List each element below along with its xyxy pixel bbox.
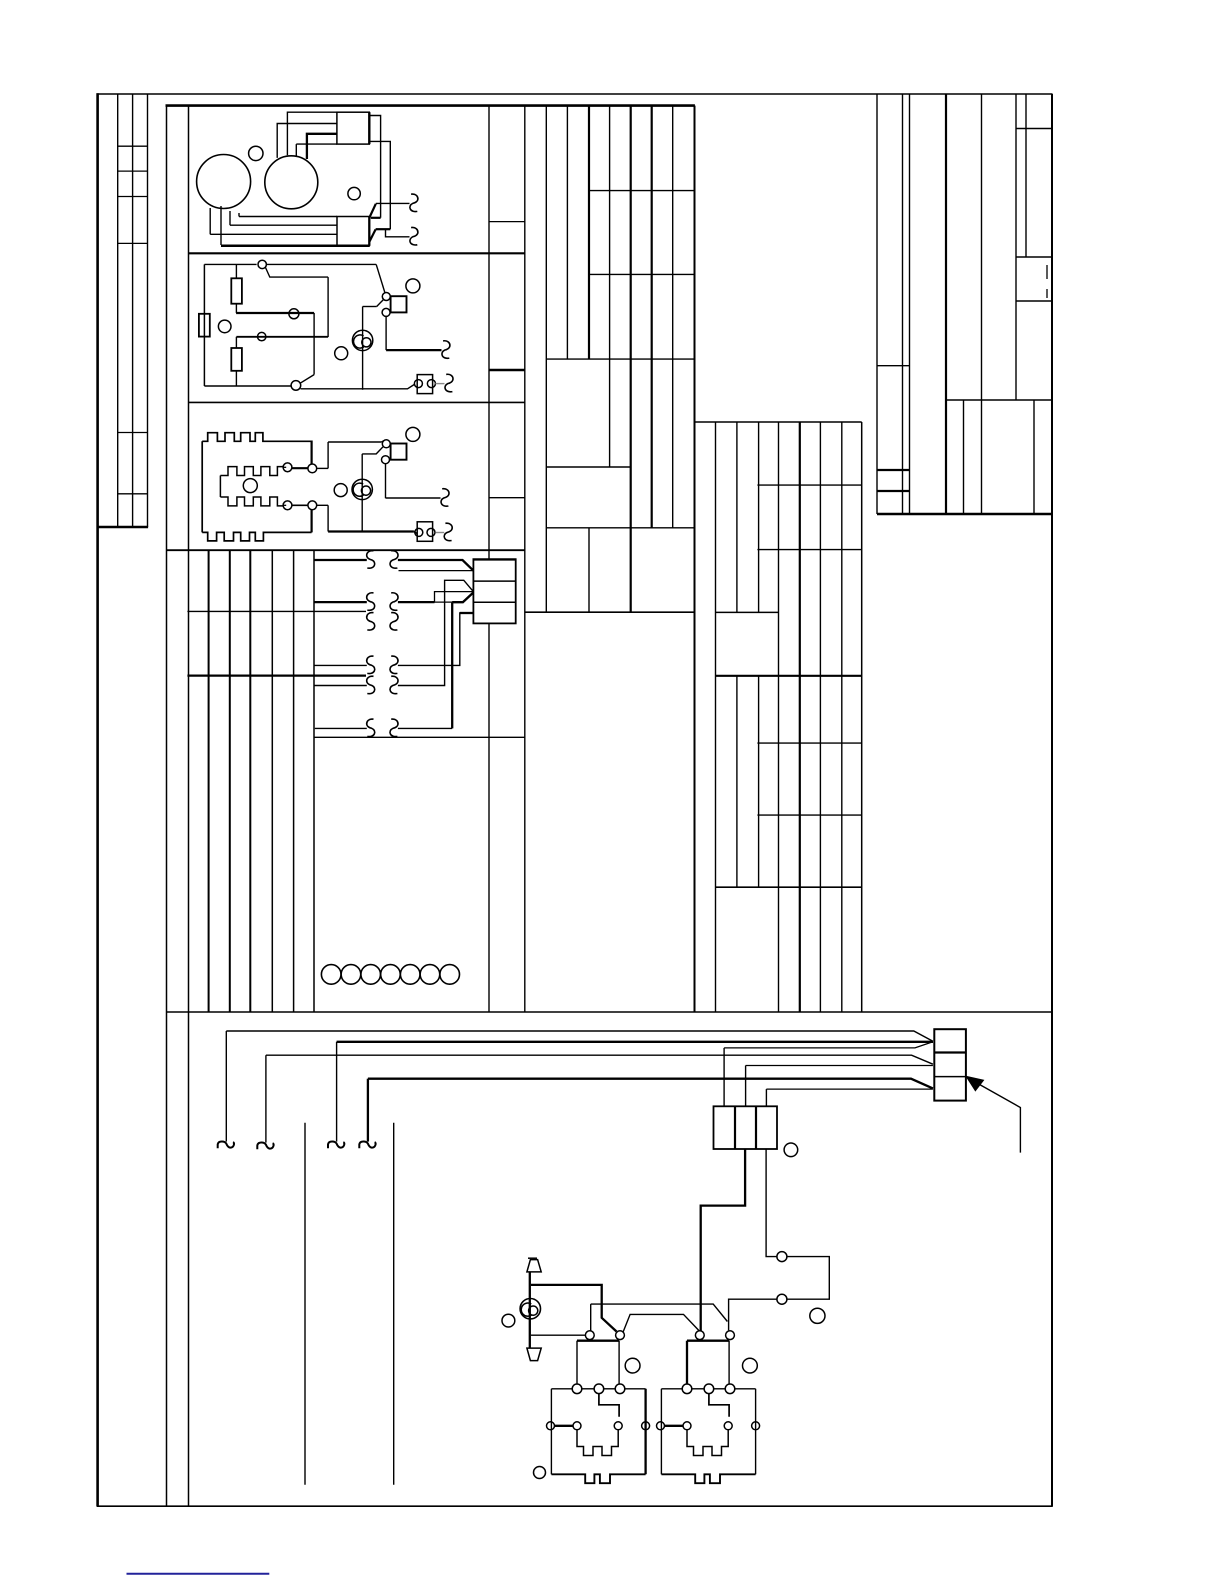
column x567 [566,106,568,360]
table column line 2 [132,94,134,527]
relay inner contact circle 2 [573,1422,581,1430]
relay upper box [687,1340,729,1342]
group row y527 [546,527,694,529]
sec2 relay drop [385,317,387,351]
bottom section top line [166,1011,1052,1013]
inner box top line [314,736,525,738]
bus column x250 [249,550,251,1012]
sec2 bus drop [313,313,315,375]
terminal circle row [321,965,341,985]
sec3 relay drop [385,464,387,498]
bus line x489 lower [488,623,490,1012]
bus column x272 [271,550,273,1012]
sec3 hook B [444,523,452,541]
pilot box outline [787,1257,829,1300]
column x1016 [1015,94,1017,400]
wire W1 thick [314,559,367,561]
stator lead lower [283,504,286,506]
crossover wire 2 [623,1314,699,1331]
relay box sec2 [391,296,407,312]
relay contact circle top [382,293,390,301]
right tick y470 [877,469,910,471]
bus line x525 [524,106,526,1012]
section divider 2-3 [189,401,525,403]
engine thick step lower [376,228,391,230]
dash mark 1 [1046,265,1048,279]
R1 wire thick to cell1 [398,560,473,570]
column x877 [876,94,878,514]
column x630 [630,106,632,613]
bundle wire A drop [225,1031,227,1142]
page bottom border [97,1505,1053,1507]
pointer arrow annotation [967,1077,983,1090]
plain circle sec2 mid [335,347,348,360]
connector top thick [473,558,517,560]
winding pair row6 right [390,719,398,737]
connector divider 1 [473,580,515,582]
sec2 hook A [442,341,450,359]
engine small port circle 2 [348,187,360,199]
engine left lead 4 [238,213,240,217]
column x909 [909,94,911,514]
bundle hook C [257,1142,273,1149]
bundle wire C [266,1055,933,1064]
engine left lead 2 [220,206,222,245]
wire pilot to relay R [729,1299,777,1330]
relay inner link [599,1394,619,1417]
sec2 wire to contact box [301,384,416,389]
resistor fuse F1 [231,278,242,303]
table bottom line [97,526,149,528]
engine thick diagonal lower [369,229,375,241]
valve thick feed wire [531,1285,617,1332]
valve lower wire to relay L [531,1334,585,1336]
lamp inner circle sec2 [362,338,371,347]
winding pair row4 right [390,656,398,674]
valve symbol vertical [529,1272,531,1348]
cell divider A [934,1051,966,1053]
crossover wire 1 [591,1304,728,1331]
winding pair row4 left [367,656,375,674]
relay inner contact circle 4 [642,1422,650,1430]
middle row y485 [757,484,861,486]
engine small port circle [249,146,263,160]
section divider 1-2 [189,252,525,254]
bus column x293 [293,550,295,1012]
engine body top line [296,143,337,145]
right tick y491 [877,490,910,492]
long float vertical 1 [304,1123,306,1485]
middle row y612 [716,611,779,613]
winding tap circle UL [283,463,292,472]
sec3 switch circle top [382,440,390,448]
blue footer rule [127,1573,270,1575]
resistor fuse F2 [199,314,210,337]
clearance circle left relay [625,1358,640,1373]
big circle sec3 right [406,427,420,441]
lamp glass circle sec2 [352,330,372,350]
section divider 3-4 [167,549,525,551]
long float vertical 2 [393,1123,395,1485]
engine lower right box [337,217,369,246]
companion wire c1 [724,1042,933,1048]
bus column x208 [208,550,210,1012]
relay top circle L [695,1331,704,1340]
wire W2 thick [314,601,367,603]
relay inner contact circle 4 [752,1422,760,1430]
sec2 switch blade [266,268,329,278]
engine top box [337,112,369,144]
winding pair row5 right [390,676,398,694]
relay mid circle 3 [725,1384,735,1394]
sec2 hook B [445,374,453,392]
relay inner thick seg [555,1425,574,1427]
engine left lead 3 [229,211,231,225]
R4 wire riser to cell3 [398,613,473,665]
column x800 [799,422,801,1012]
R6 wire [398,727,452,729]
sec3 blade [362,447,383,454]
column x902 [902,94,904,514]
sec3 contact circle R [427,528,435,536]
engine rail 3 [210,233,337,235]
sec3 diag to contact [414,532,417,534]
page left border [96,93,99,1506]
junction circle on mid bus [258,332,266,340]
small circle left of valve [502,1314,515,1327]
engine top bracket 1 [287,112,337,155]
bundle wire D thick [368,1079,933,1089]
column x1026 [1025,94,1027,257]
relay top circle R [616,1331,625,1340]
thick drop from top edge [311,441,313,465]
R6 riser thick [451,603,453,729]
relay mid circle 1 [682,1384,692,1394]
column x715 [715,422,717,1012]
group bottom y612 [525,611,695,613]
main header line [166,104,695,107]
engine hook 2 [410,227,418,245]
column x820 [819,422,821,1012]
sec2 lamp drop lower [362,307,364,390]
bundle wire B drop [336,1042,338,1142]
table column line 3 [147,94,149,527]
winding pair row1 right [390,551,398,569]
lower connector divider 2 [755,1106,757,1149]
relay inner crown [687,1430,728,1456]
valve cap line [528,1257,537,1259]
winding tap circle UR [308,464,317,473]
gray stub 2 [436,532,444,534]
lower connector divider 1 [734,1106,736,1149]
column x609 [609,106,611,467]
engine rail 2 [230,224,337,226]
tick y370 [489,369,525,371]
contact box sec3 [417,522,432,542]
winding pair row1 left [367,551,375,569]
stator inner bar with teeth [220,467,283,506]
right group bottom y514 [877,513,1052,515]
wire W5 thick [187,674,366,676]
upper pair lead right [317,467,328,469]
relay inner crown [577,1430,618,1456]
sec2 bottom rail [204,385,291,387]
drop to lower connector 2 [745,1066,747,1107]
page right border [1051,94,1053,1507]
relay inner thick seg [665,1425,684,1427]
winding tap circle LR [308,501,317,510]
sec2 F3 top lead [235,337,237,348]
clearance circle right relay [743,1358,758,1373]
sec2 blade drop [327,277,329,337]
engine rail 1 [239,216,337,218]
column x589 lower [588,528,590,612]
cell3 thick entry [460,612,473,614]
right row y128 [1016,128,1052,130]
sec3 drop [327,505,329,531]
R2 wire thin part to cell2 [435,592,474,602]
engine left lead 1 [209,208,211,234]
page top border [97,93,1053,95]
bundle wire C drop [265,1055,267,1142]
sec2 diagonal to relay [376,264,385,293]
winding pair row3 right [390,613,398,631]
engine hook 1 [410,194,418,212]
lamp inner circle sec3 [361,486,370,495]
group row y190 [589,190,695,192]
gray stub [435,383,444,385]
column x1034 [1033,400,1035,514]
engine right outline outer [369,116,381,218]
relay mid circle 3 [615,1384,625,1394]
lamp glass circle sec3 [352,479,372,499]
bundle wire B thick [337,1041,933,1043]
bundle wire D drop [367,1079,369,1142]
relay upper box [577,1340,619,1342]
cell divider B [934,1076,966,1078]
wire W7 [315,727,367,729]
pilot box circle bottom [777,1294,787,1304]
table row divider 6 [118,493,148,495]
R2 wire thick part [398,601,435,603]
wire cell2 to relays thick [701,1149,745,1331]
tick y497 [489,497,525,499]
sec2 top rail [204,263,256,265]
sec3 lead to hook [386,497,441,499]
sec3 feed diag [382,441,384,442]
sec3 contact circle L [415,528,423,536]
column x778 [778,422,780,1012]
connector box transformer right [473,559,515,623]
relay mid circle 1 [572,1384,582,1394]
dash mark 2 [1046,289,1048,298]
relay body box [661,1388,682,1390]
middle group top [695,421,862,423]
column x546 [545,106,547,613]
link lower pair [292,504,308,506]
sec2 lamp feed horizontal [363,306,377,308]
right row y257 [1016,256,1052,258]
sec2 top rail right [267,263,377,265]
circle bottom left of relay [534,1467,546,1479]
R5 wire riser to cell2 top [398,580,473,685]
bundle wire A top [226,1031,933,1041]
inner frame vertical A [166,105,168,1506]
table row divider 3 [118,196,148,198]
column x737 lower [736,676,738,887]
column x963 [963,400,965,514]
winding pair row6 left [367,719,375,737]
stator inner circle [243,479,257,493]
valve funnel bottom [527,1348,541,1361]
engine thick step upper [371,217,381,219]
sec3 relay box [391,444,407,460]
relay inner contact circle 3 [614,1422,622,1430]
pointer arrow tail [976,1083,1020,1153]
label circle sec2 [218,320,231,333]
resistor fuse F3 [231,348,242,371]
column x841 [841,422,843,1012]
table row divider 4 [118,242,148,244]
relay inner contact circle 3 [724,1422,732,1430]
engine pulley circle [265,156,318,209]
bundle hook D [359,1141,375,1148]
sec2 F3 bottom lead [235,371,237,386]
inner frame vertical B [188,105,190,1506]
winding pair row2 left [367,593,375,611]
wire W6 [314,685,367,687]
wire W3 [187,610,366,612]
sec3 switch circle bottom [382,456,390,464]
connector 3-cell right [934,1029,966,1100]
engine top box thick right edge [368,112,370,144]
relay mid circle 2 [594,1384,604,1394]
R6 thick into cell2 [452,593,473,603]
relay contact circle bottom [382,308,390,316]
middle row y743 [757,742,861,744]
engine right outline inner [370,141,390,229]
bus column x314 [313,550,315,1012]
drop to lower connector 3 [765,1089,767,1106]
sec2 left rail [203,264,205,386]
sec2 bottom switch circle [291,381,301,391]
bundle hook A [218,1141,234,1148]
winding pair row2 right [390,593,398,611]
relay body box [551,1388,572,1390]
column x758 lower [758,676,760,887]
junction circle on bus [289,309,299,319]
lamp filament arc sec2 [354,335,364,348]
bus column x229 [229,550,231,1012]
table row divider 5 [118,432,148,434]
companion wire c3 [766,1088,933,1090]
table row divider 2 [118,170,148,172]
column x651 [651,106,653,528]
right row y365 [877,365,910,367]
group row y274 [589,273,695,275]
engine top bracket 2 [277,124,337,158]
pilot box circle top [777,1252,787,1262]
winding pair row3 left [367,613,375,631]
sec2 F1 bottom lead [235,304,237,313]
engine body edge stub [295,144,297,156]
engine lead to hook 2 [386,229,410,237]
relay inner contact circle 1 [657,1422,665,1430]
thick link upper pair [292,467,308,469]
engine flywheel circle [197,155,251,209]
sec3 riser [327,442,329,468]
relay inner contact circle 1 [547,1422,555,1430]
engine thick diagonal upper [369,204,375,218]
column x737 upper [736,422,738,612]
column x946 [945,94,947,514]
engine lead to hook 1 [376,202,410,204]
sec2 thick lead to hook [386,349,441,351]
companion wire c2 [746,1065,933,1067]
R2 step wire [435,592,474,603]
valve funnel top [527,1260,541,1272]
lower pair lead right [317,504,328,506]
middle row y676 [716,675,862,677]
sec2 mid bus [236,336,328,338]
stator outer frame with teeth [202,433,311,541]
thick drop to bottom edge [311,510,313,533]
engine bottom thick rail [221,245,370,248]
column x672 [672,106,674,528]
sec2 blade to top contact [377,300,384,307]
sec2 bottom blade [300,375,314,384]
contact box sec2 bottom-right [417,375,432,394]
table row divider 1 [118,145,148,147]
contact circle L [414,380,422,388]
stator lead upper [283,466,286,468]
drop to lower connector 1 [723,1048,725,1106]
right row y400 [946,399,1052,401]
clearance circle pilot [810,1308,825,1323]
small circle near lower connector [784,1143,798,1157]
big circle sec2 right [406,279,420,293]
winding tap circle LL [283,501,292,510]
right row y301 [1016,300,1052,302]
column x758 upper [758,422,760,612]
middle row y548 [757,549,861,551]
engine thick corner [307,134,337,159]
sec2 F1 top lead [235,264,237,278]
plain circle sec3 mid [334,484,347,497]
wire cell3 to pilot box [766,1149,777,1257]
valve pump filament arc [521,1303,531,1316]
sec3 top feed [328,441,381,443]
connector 3-cell lower [714,1106,778,1149]
column x694 [694,106,696,1012]
relay mid circle 2 [704,1384,714,1394]
sec3 thick bottom wire [328,530,414,532]
relay inner link [709,1394,729,1417]
companion wire cell1 [399,570,474,572]
group row y467 [546,466,630,468]
lamp filament arc sec3 [353,483,363,496]
tick y221 [489,221,525,223]
bus line x489 upper [488,106,490,560]
table column line 1 [117,94,119,527]
column x862 [861,422,863,1012]
sec2 thick bus [236,312,314,314]
sec3 hook A [441,489,449,507]
wire W4 [314,664,367,666]
column x981 [981,94,983,514]
winding pair row5 left [367,676,375,694]
middle row y887 [716,886,862,888]
